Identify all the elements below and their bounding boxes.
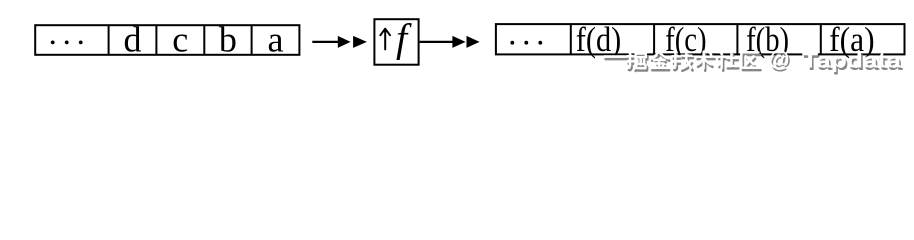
left box divider 2	[155, 25, 157, 55]
right box divider 4	[820, 24, 822, 54]
uparrow glyph	[380, 29, 390, 50]
watermark white layer	[604, 47, 902, 73]
arrow 2 head A	[452, 36, 465, 48]
left list box	[35, 25, 299, 55]
left box divider 3	[203, 25, 205, 55]
right list box	[496, 24, 905, 54]
left cdots	[51, 41, 83, 45]
right box divider 1	[570, 24, 572, 54]
arrow 1 head B	[353, 36, 367, 48]
arrow 1 head A	[338, 36, 351, 48]
arrow 1 shaft	[312, 41, 340, 43]
left box divider 4	[251, 25, 253, 55]
right cdots	[510, 41, 542, 45]
svg-text:d: d	[124, 19, 142, 59]
watermark shadow layer	[606, 50, 904, 76]
function box U (up f)	[374, 19, 418, 64]
right box divider 2	[653, 24, 655, 54]
arrow 2 head B	[467, 36, 480, 48]
svg-text:a: a	[268, 19, 284, 59]
svg-text:c: c	[172, 19, 188, 59]
right box divider 3	[736, 24, 738, 54]
arrow 2 shaft	[420, 41, 455, 43]
svg-text:f(d): f(d)	[576, 20, 622, 59]
svg-text:b: b	[219, 19, 237, 59]
left box divider 1	[108, 25, 110, 55]
